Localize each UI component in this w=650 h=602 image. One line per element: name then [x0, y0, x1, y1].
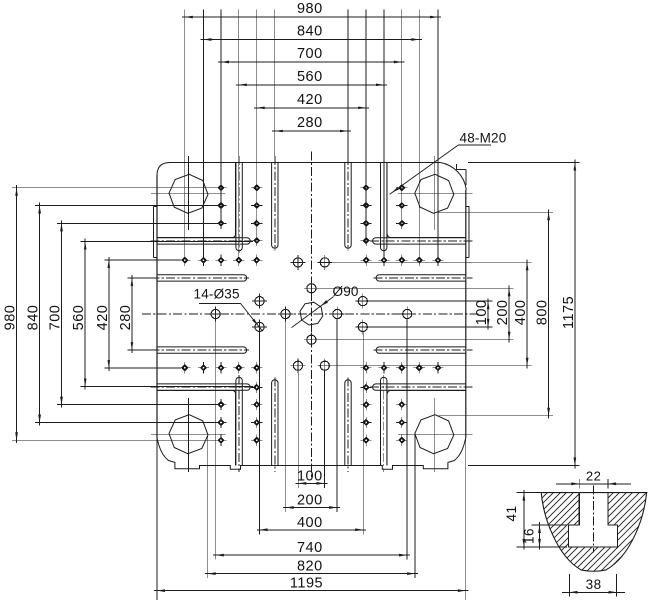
dimension 560 (top chain) [236, 10, 387, 260]
plate outline [157, 163, 466, 470]
svg-text:280: 280 [118, 305, 134, 331]
M20 tapped hole group right-bottom quadrant (12 of 48-M20) [361, 362, 444, 446]
svg-text:41: 41 [504, 505, 519, 521]
Phi35 hole 12 of 14 [252, 320, 267, 335]
T-slot vertical bottom right-corner [381, 375, 387, 472]
detail dimension 38 [562, 574, 625, 597]
T-slot vertical bottom left-corner [236, 375, 242, 472]
svg-text:200: 200 [495, 300, 511, 326]
dimension 700 (left chain) [48, 221, 219, 408]
T-slot horizontal right mid-upper [374, 275, 473, 281]
label 48-M20 with leader [390, 131, 507, 195]
boss edge top-right [387, 163, 466, 238]
svg-text:1175: 1175 [561, 296, 577, 329]
Phi35 hole 2 of 14 [317, 255, 332, 270]
dimension 200 (bottom chain) [283, 319, 340, 513]
M20 tapped hole group left-top quadrant (12 of 48-M20) [179, 182, 262, 266]
svg-text:840: 840 [26, 305, 42, 331]
svg-text:200: 200 [297, 493, 323, 509]
T-slot horizontal left upper-corner [151, 238, 253, 244]
T-slot vertical bottom mid-right [345, 377, 351, 472]
svg-text:100: 100 [297, 469, 323, 485]
dimension 100 (bottom chain) [296, 370, 328, 488]
T-slot vertical bottom mid-left [272, 377, 278, 472]
dimension 420 (top chain) [254, 10, 369, 244]
svg-text:420: 420 [297, 92, 323, 108]
vertical centerline [310, 152, 312, 478]
left edge tab [153, 207, 157, 258]
dimension 280 (left chain) [118, 275, 157, 353]
detail view centerline [593, 486, 595, 553]
Phi35 hole 3 of 14 [304, 281, 319, 296]
tie-bar hole bottom-right [398, 398, 473, 472]
svg-text:16: 16 [522, 528, 537, 544]
dimension 280 (top chain) [272, 10, 351, 163]
T-slot horizontal right mid-lower [374, 347, 473, 353]
tie-bar hole bottom-left [151, 398, 226, 472]
svg-text:48-M20: 48-M20 [460, 131, 507, 146]
svg-text:280: 280 [297, 115, 323, 131]
svg-text:14-Ø35: 14-Ø35 [194, 286, 240, 301]
dimension 1195 (bottom chain) [154, 438, 468, 600]
Phi35 hole 13 of 14 [355, 294, 370, 309]
dimension 200 (right chain) [317, 286, 514, 343]
svg-text:820: 820 [297, 559, 323, 575]
detail dimension 22 [556, 468, 631, 488]
svg-text:980: 980 [297, 1, 323, 17]
T-slot horizontal left mid-lower [151, 347, 250, 353]
svg-text:400: 400 [513, 300, 529, 326]
Phi35 hole 8 of 14 [304, 332, 319, 347]
T-slot horizontal right lower-corner [370, 384, 472, 390]
tie-bar hole top-left [151, 156, 226, 230]
detail dimension 16 [522, 522, 568, 550]
svg-text:38: 38 [586, 577, 602, 592]
Phi35 hole 1 of 14 [291, 255, 306, 270]
Phi35 hole 10 of 14 [317, 358, 332, 373]
T-slot vertical top left-corner [236, 156, 242, 253]
Phi35 hole 7 of 14 [400, 307, 415, 322]
tie-bar hole top-right [398, 156, 473, 230]
svg-text:740: 740 [297, 540, 323, 556]
detail view hatching [300, 440, 650, 602]
svg-text:560: 560 [71, 305, 87, 331]
label Phi90 with leader [292, 284, 359, 328]
Phi35 hole 4 of 14 [278, 307, 293, 322]
svg-text:800: 800 [535, 300, 551, 326]
dimension 100 (right chain) [368, 298, 493, 329]
Phi35 hole 9 of 14 [291, 358, 306, 373]
horizontal centerline [142, 313, 481, 315]
label 14-Phi35 with leader [194, 286, 263, 331]
dimension 560 (left chain) [71, 239, 253, 390]
svg-text:22: 22 [586, 468, 601, 483]
svg-text:980: 980 [3, 305, 19, 331]
Phi35 hole 5 of 14 [330, 307, 345, 322]
dimension 840 (top chain) [201, 10, 422, 260]
svg-text:840: 840 [297, 24, 323, 40]
svg-text:1195: 1195 [290, 576, 323, 592]
boss edge bottom-right [387, 390, 466, 465]
detail dimension 41 [504, 490, 567, 550]
dimension 800 (right chain) [437, 210, 553, 419]
dimension 420 (left chain) [95, 257, 181, 371]
Phi35 hole 11 of 14 [252, 294, 267, 309]
T-slot vertical top right-corner [381, 156, 387, 253]
M20 tapped hole group left-bottom quadrant (12 of 48-M20) [179, 362, 262, 446]
M20 tapped hole group right-top quadrant (12 of 48-M20) [361, 182, 444, 266]
svg-text:700: 700 [297, 46, 323, 62]
Phi35 hole 14 of 14 [355, 320, 370, 335]
dimension 840 (left chain) [26, 203, 217, 426]
dimension 400 (right chain) [330, 260, 532, 369]
T-slot vertical top mid-right [345, 156, 351, 251]
T-slot horizontal left lower-corner [151, 384, 253, 390]
Phi35 hole 6 of 14 [208, 307, 223, 322]
dimension 980 (left chain) [3, 185, 218, 443]
svg-text:700: 700 [48, 305, 64, 331]
svg-text:100: 100 [474, 300, 490, 326]
T-slot horizontal left mid-upper [151, 275, 250, 281]
dimension 980 (top chain) [182, 1, 441, 259]
dimension 740 (bottom chain) [213, 319, 410, 560]
dimension 400 (bottom chain) [257, 332, 366, 535]
boss edge bottom-left [157, 390, 236, 465]
right edge tab [466, 207, 469, 258]
detail view T-slot profile [540, 493, 647, 572]
boss edge top-left [157, 163, 236, 238]
top-right corner step tab [456, 164, 466, 185]
svg-text:420: 420 [95, 305, 111, 331]
center hole Phi90 [300, 302, 323, 325]
T-slot vertical top mid-left [272, 156, 278, 251]
dimension 820 (bottom chain) [205, 435, 418, 579]
dimension 700 (top chain) [218, 10, 404, 227]
dimension 1175 (right chain) [468, 160, 579, 469]
svg-text:Ø90: Ø90 [333, 284, 359, 299]
T-slot horizontal right upper-corner [370, 238, 472, 244]
svg-text:400: 400 [297, 515, 323, 531]
svg-text:560: 560 [297, 69, 323, 85]
